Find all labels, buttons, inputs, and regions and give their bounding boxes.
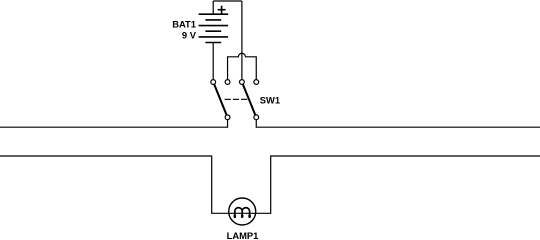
- lead-through wire: [229, 212, 256, 214]
- wire battery negative stub down to switch pin 1: [212, 43, 214, 80]
- switch SW1: [211, 80, 259, 120]
- svg-text:LAMP1: LAMP1: [227, 230, 259, 240]
- svg-text:SW1: SW1: [260, 95, 280, 106]
- pin 4 terminal: [254, 80, 259, 85]
- wire lower left run down to lamp: [0, 156, 229, 213]
- wire left run to SW1 pin 5: [0, 120, 228, 128]
- wire right run to SW1 pin 6: [256, 120, 540, 128]
- wire branch with hop joining switch pins 2 and 4: [228, 53, 257, 79]
- wire right vertical down to switch pin 3: [241, 1, 243, 80]
- pin 2 terminal: [225, 80, 230, 85]
- svg-text:9 V: 9 V: [182, 30, 197, 41]
- pin 5 common terminal: [225, 115, 230, 120]
- pin 3 terminal: [240, 80, 245, 85]
- wire top run: [213, 0, 242, 2]
- wire battery positive stub up: [212, 1, 214, 14]
- lever pole B: [243, 84, 255, 115]
- pin 6 common terminal: [254, 115, 259, 120]
- lamp LAMP1: [229, 198, 256, 225]
- filament: [235, 208, 250, 217]
- gang link dashed: [225, 98, 248, 100]
- wire lower right run down to lamp: [256, 156, 540, 213]
- svg-text:BAT1: BAT1: [172, 18, 196, 29]
- bulb envelope: [229, 198, 256, 225]
- pin 1 terminal: [211, 80, 216, 85]
- battery BAT1: [199, 6, 229, 43]
- lever pole A: [214, 84, 226, 115]
